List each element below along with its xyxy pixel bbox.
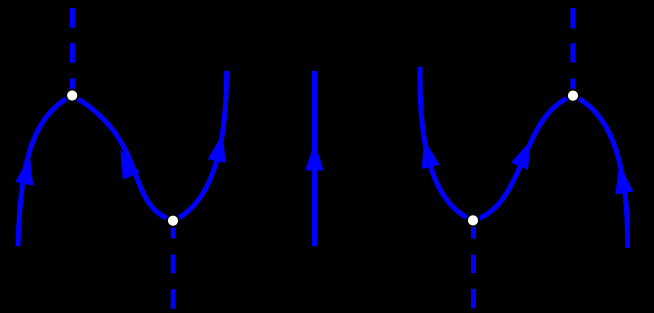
node: right peak vertex bbox=[566, 89, 580, 103]
arrow on left diagram lower-left leg bbox=[15, 154, 39, 186]
wire: right-top dashed boson propagator bbox=[571, 8, 576, 96]
wire: left-top dashed boson propagator bbox=[70, 8, 75, 95]
arrow on right diagram lower-right leg bbox=[610, 163, 633, 194]
arrow on right diagram upper-left leg bbox=[415, 137, 439, 169]
wire: right diagram fermion leg (top-left down to valley vertex) bbox=[420, 67, 473, 220]
wire: right diagram fermion leg (peak vertex down to bottom-right) bbox=[573, 96, 628, 248]
wire: right diagram fermion leg (valley vertex up to peak vertex) bbox=[473, 96, 573, 221]
wire: middle fermion line bbox=[312, 71, 317, 246]
wire: left diagram fermion leg (valley vertex up to top-right) bbox=[173, 71, 227, 221]
node: left valley vertex bbox=[166, 214, 180, 228]
arrow on right diagram middle leg bbox=[511, 136, 539, 170]
wire: left-bottom dashed boson propagator bbox=[171, 219, 176, 309]
arrow on left diagram middle leg bbox=[112, 146, 140, 179]
wire: right-bottom dashed boson propagator bbox=[471, 219, 476, 308]
wire: left diagram fermion leg (bottom-left up to peak vertex) bbox=[18, 95, 72, 246]
arrow on left diagram upper-right leg bbox=[208, 131, 232, 163]
wire: left diagram fermion leg (peak vertex down to valley vertex) bbox=[72, 96, 173, 221]
node: right valley vertex bbox=[466, 213, 480, 227]
node: left peak vertex bbox=[65, 89, 79, 103]
arrow on middle fermion line bbox=[305, 142, 323, 171]
